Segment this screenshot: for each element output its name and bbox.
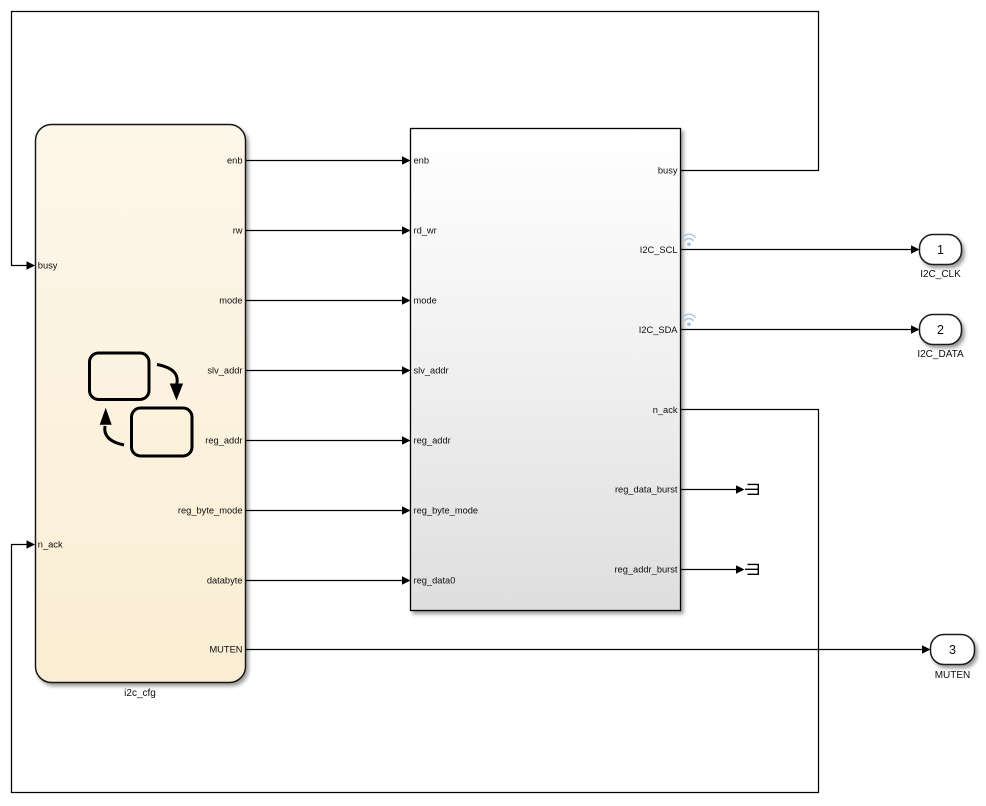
- wire reg_data_burst: [680, 485, 745, 493]
- subsystem pin label rd_wr: [414, 226, 437, 236]
- svg-text:reg_byte_mode: reg_byte_mode: [414, 506, 479, 516]
- wire databyte to reg_data0: [246, 576, 411, 584]
- terminator T1 on reg_data_burst: [745, 484, 758, 495]
- svg-text:slv_addr: slv_addr: [414, 366, 449, 376]
- svg-text:I2C_SCL: I2C_SCL: [640, 245, 678, 255]
- test point badge on I2C_SDA: [683, 314, 696, 326]
- subsystem pin label reg_data0: [414, 576, 456, 586]
- subsystem pin label enb: [414, 156, 430, 166]
- svg-text:rw: rw: [233, 226, 243, 236]
- subsystem pin label I2C_SDA: [639, 325, 679, 335]
- subsystem block: [411, 129, 681, 611]
- svg-text:enb: enb: [414, 156, 430, 166]
- terminator T2 on reg_addr_burst: [745, 564, 758, 575]
- wire I2C_SDA: [680, 325, 920, 333]
- svg-text:rd_wr: rd_wr: [414, 226, 437, 236]
- svg-text:MUTEN: MUTEN: [209, 645, 242, 655]
- svg-text:I2C_DATA: I2C_DATA: [917, 349, 964, 360]
- svg-text:2: 2: [937, 323, 944, 337]
- svg-text:busy: busy: [658, 166, 678, 176]
- output port 2 I2C_DATA: [917, 315, 964, 360]
- svg-text:busy: busy: [38, 261, 58, 271]
- chart pin label busy: [38, 261, 58, 271]
- wire busy feedback (subsystem busy -> chart busy): [12, 12, 819, 270]
- chart state machine icon: [90, 353, 193, 456]
- chart pin label reg_byte_mode: [178, 506, 243, 516]
- wire mode: [246, 296, 411, 304]
- svg-text:slv_addr: slv_addr: [207, 366, 242, 376]
- chart pin label rw: [233, 226, 243, 236]
- subsystem pin label reg_byte_mode: [414, 506, 479, 516]
- subsystem pin label n_ack: [653, 405, 678, 415]
- chart pin label reg_addr: [205, 436, 242, 446]
- svg-text:3: 3: [949, 643, 956, 657]
- svg-text:reg_data_burst: reg_data_burst: [615, 485, 678, 495]
- subsystem pin label mode: [414, 296, 437, 306]
- chart pin label slv_addr: [207, 366, 242, 376]
- wire reg_byte_mode: [246, 506, 411, 514]
- subsystem pin label I2C_SCL: [640, 245, 678, 255]
- subsystem pin label reg_data_burst: [615, 485, 678, 495]
- subsystem pin label busy: [658, 166, 678, 176]
- subsystem pin label reg_addr_burst: [614, 565, 677, 575]
- chart pin label mode: [219, 296, 242, 306]
- svg-text:MUTEN: MUTEN: [935, 670, 971, 681]
- svg-text:n_ack: n_ack: [653, 405, 678, 415]
- chart name label i2c_cfg: [124, 688, 156, 699]
- svg-text:reg_addr_burst: reg_addr_burst: [614, 565, 677, 575]
- svg-text:i2c_cfg: i2c_cfg: [124, 688, 156, 699]
- subsystem pin label slv_addr: [414, 366, 449, 376]
- chart pin label databyte: [207, 576, 243, 586]
- subsystem pin label reg_addr: [414, 436, 451, 446]
- svg-text:I2C_CLK: I2C_CLK: [920, 269, 961, 280]
- svg-text:n_ack: n_ack: [38, 540, 63, 550]
- chart pin label enb: [227, 156, 243, 166]
- svg-text:databyte: databyte: [207, 576, 243, 586]
- wire n_ack feedback (subsystem n_ack -> chart n_ack): [12, 410, 819, 793]
- svg-text:enb: enb: [227, 156, 243, 166]
- svg-text:I2C_SDA: I2C_SDA: [639, 325, 679, 335]
- wire reg_addr: [246, 436, 411, 444]
- wire slv_addr: [246, 366, 411, 374]
- chart pin label n_ack: [38, 540, 63, 550]
- output port 1 I2C_CLK: [920, 235, 962, 280]
- output port 3 MUTEN: [931, 635, 975, 681]
- svg-text:reg_data0: reg_data0: [414, 576, 456, 586]
- svg-text:mode: mode: [219, 296, 242, 306]
- chart i2c_cfg block: [36, 125, 246, 683]
- wire enb: [246, 156, 411, 164]
- svg-text:reg_addr: reg_addr: [414, 436, 451, 446]
- svg-text:reg_addr: reg_addr: [205, 436, 242, 446]
- svg-text:mode: mode: [414, 296, 437, 306]
- wire reg_addr_burst: [680, 565, 745, 573]
- wire MUTEN: [246, 645, 931, 653]
- wire rw to rd_wr: [246, 226, 411, 234]
- wire I2C_SCL: [680, 245, 920, 253]
- chart pin label MUTEN: [209, 645, 242, 655]
- test point badge on I2C_SCL: [683, 234, 696, 246]
- svg-text:1: 1: [937, 243, 944, 257]
- svg-text:reg_byte_mode: reg_byte_mode: [178, 506, 243, 516]
